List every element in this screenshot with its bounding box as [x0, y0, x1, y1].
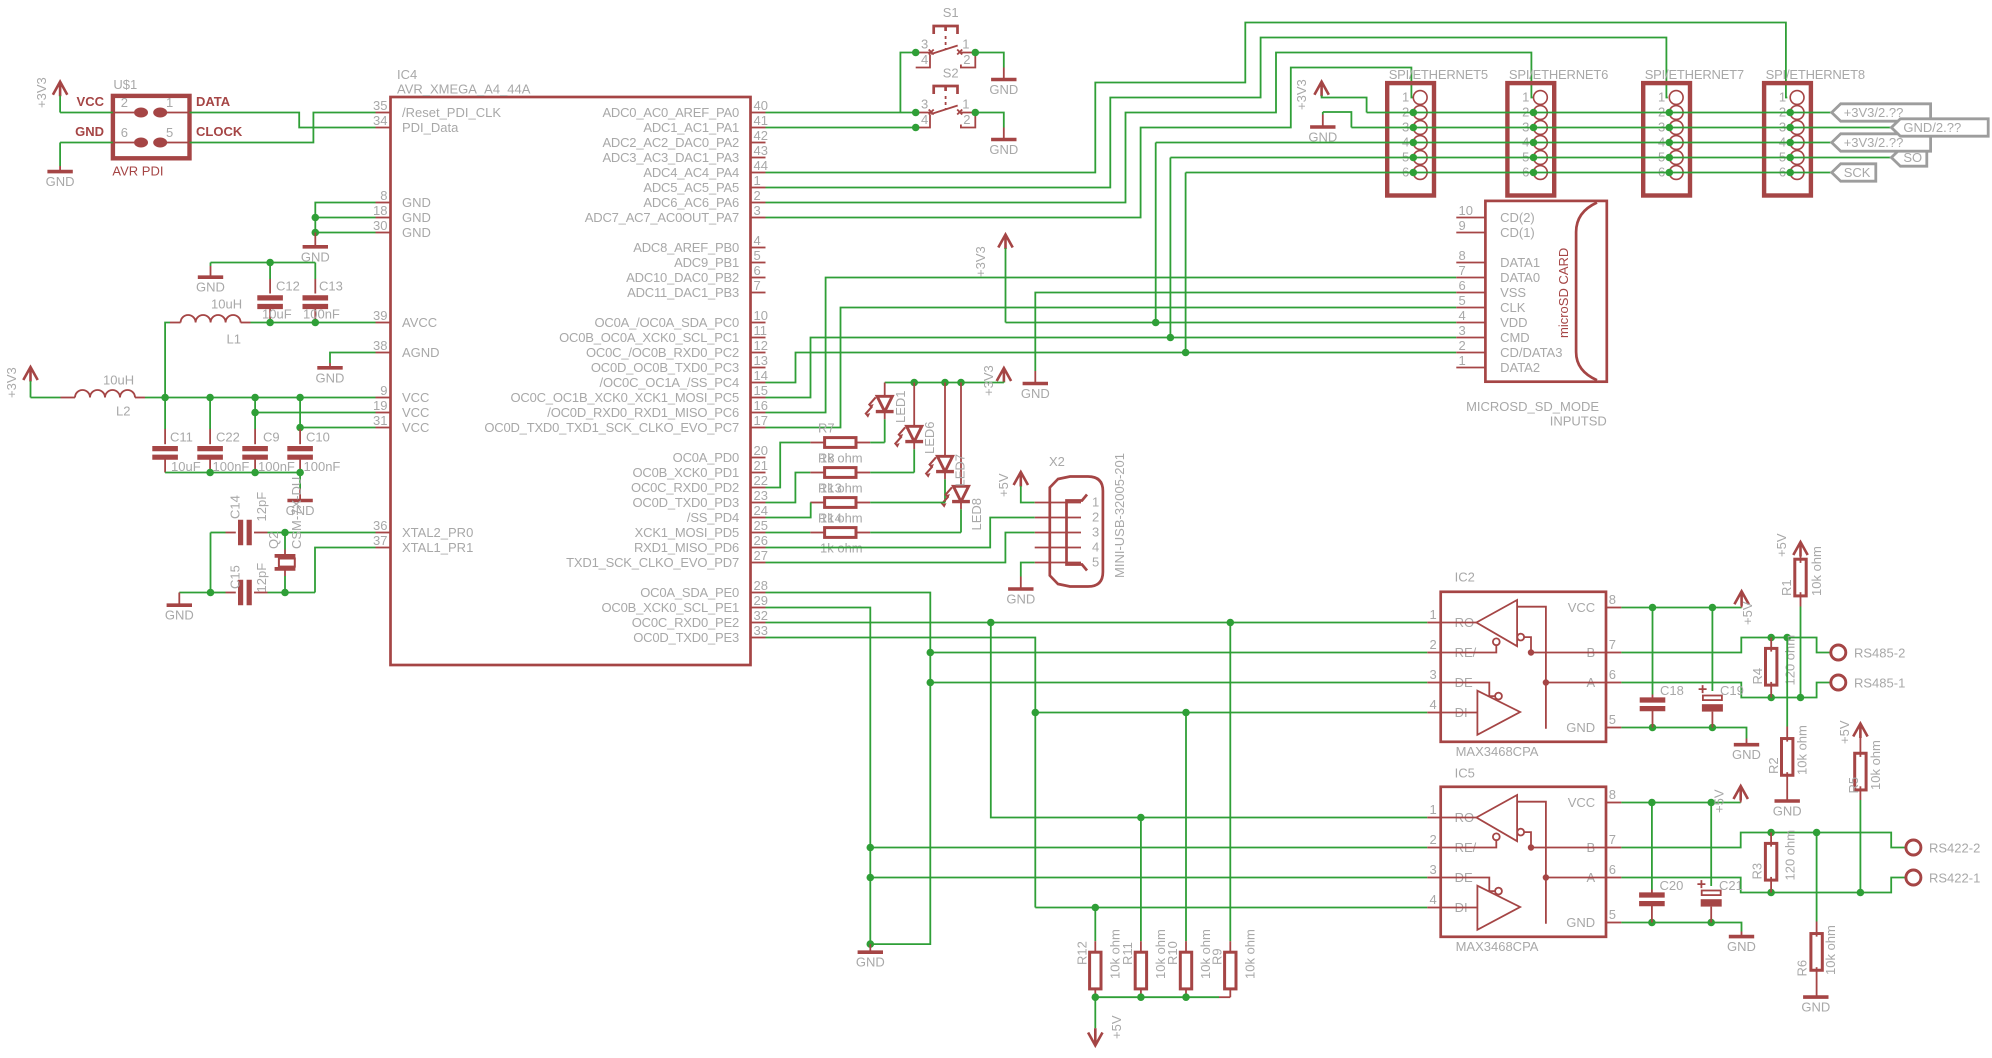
- +5V power symbol at IC5: [1734, 786, 1748, 801]
- IC4 pin 13 OC0D_OC0B_TXD0_PC3: [751, 367, 766, 369]
- LED6 anode lead: [913, 383, 915, 427]
- svg-text:Q2: Q2: [266, 532, 281, 549]
- wire LED8 cathode: [960, 509, 962, 532]
- svg-text:1: 1: [1429, 802, 1436, 817]
- R1 bottom lead: [1800, 592, 1802, 606]
- C13 bottom lead: [314, 307, 316, 323]
- junction: [251, 469, 259, 477]
- svg-text:GND: GND: [1566, 720, 1595, 735]
- junction SPI/ETHERNET8 pin 2: [1786, 109, 1794, 117]
- svg-text:28: 28: [754, 578, 768, 593]
- wire IC2 B to RS485-2: [1621, 638, 1830, 653]
- LED7 anode lead: [944, 383, 946, 457]
- junction: [312, 229, 320, 237]
- wire LED1 cathode: [884, 419, 886, 442]
- svg-text:R12: R12: [1074, 941, 1089, 965]
- svg-text:DATA0: DATA0: [1500, 270, 1540, 285]
- junction: [312, 214, 320, 222]
- wire to ground: [299, 473, 301, 489]
- IC5 pin 5 GND: [1606, 922, 1621, 924]
- LED6 cathode lead: [913, 442, 915, 450]
- svg-text:GND: GND: [1732, 747, 1761, 762]
- wire R8 to LED6: [870, 472, 914, 474]
- svg-text:4: 4: [921, 112, 928, 127]
- inductor L2: [75, 390, 135, 397]
- R7 left lead: [810, 442, 824, 444]
- svg-text:35: 35: [373, 98, 387, 113]
- capacitor C14: [241, 520, 250, 546]
- svg-text:RS485-2: RS485-2: [1854, 646, 1905, 661]
- +5V power symbol at IC2: [1734, 591, 1748, 606]
- wire XTAL2: [268, 532, 376, 534]
- wire L1 to VCC rail: [165, 323, 170, 398]
- svg-text:ADC4_AC4_PA4: ADC4_AC4_PA4: [643, 165, 739, 180]
- IC4 pin 9 VCC: [376, 397, 391, 399]
- svg-text:OC0C_OC1B_XCK0_XCK1_MOSI_PC5: OC0C_OC1B_XCK0_XCK1_MOSI_PC5: [510, 390, 739, 405]
- svg-text:ADC10_DAC0_PB2: ADC10_DAC0_PB2: [626, 270, 739, 285]
- stem: [1740, 800, 1742, 803]
- svg-text:4: 4: [1459, 308, 1466, 323]
- Q2 bottom lead: [284, 569, 286, 576]
- wire PE0 pin28 enable net: [766, 593, 931, 945]
- svg-text:120 ohm: 120 ohm: [1783, 635, 1798, 686]
- svg-text:MINI-USB-32005-201: MINI-USB-32005-201: [1112, 453, 1127, 578]
- R10 bottom lead: [1185, 989, 1187, 997]
- junction: [296, 424, 304, 432]
- svg-text:OC0A_/OC0A_SDA_PC0: OC0A_/OC0A_SDA_PC0: [594, 315, 739, 330]
- svg-text:+3V3: +3V3: [1294, 79, 1309, 110]
- R2 bottom lead: [1786, 772, 1788, 801]
- C15 left lead: [226, 592, 236, 594]
- svg-text:R4: R4: [1750, 668, 1765, 685]
- wire IC5 B to RS422-2: [1621, 833, 1906, 848]
- svg-text:9: 9: [1459, 218, 1466, 233]
- svg-text:23: 23: [754, 488, 768, 503]
- svg-text:GND: GND: [1727, 939, 1756, 954]
- SPI/ETHERNET6 pin 3 circle: [1534, 121, 1548, 135]
- svg-text:CLK: CLK: [1500, 300, 1526, 315]
- svg-text:LED6: LED6: [922, 421, 937, 454]
- svg-text:ADC1_AC1_PA1: ADC1_AC1_PA1: [643, 120, 739, 135]
- +5V power symbol at R5: [1853, 724, 1867, 739]
- svg-text:10: 10: [754, 308, 768, 323]
- capacitor C11: [152, 449, 178, 458]
- IC5 pin 8 VCC: [1606, 802, 1621, 804]
- svg-text:VCC: VCC: [1568, 795, 1595, 810]
- ground stem: [1020, 577, 1022, 590]
- svg-text:C9: C9: [263, 430, 280, 445]
- C9 bottom lead: [254, 457, 256, 472]
- ground stem: [1034, 371, 1036, 384]
- junction: [1152, 319, 1160, 327]
- svg-text:RXD1_MISO_PD6: RXD1_MISO_PD6: [634, 540, 739, 555]
- svg-text:2: 2: [1092, 510, 1099, 525]
- svg-text:2: 2: [1459, 338, 1466, 353]
- connector RS422-2: [1906, 840, 1921, 855]
- wire to ground: [59, 143, 61, 167]
- R13 left lead: [810, 502, 824, 504]
- svg-text:10uH: 10uH: [103, 373, 134, 388]
- svg-text:ADC0_AC0_AREF_PA0: ADC0_AC0_AREF_PA0: [602, 105, 739, 120]
- svg-text:1: 1: [1402, 90, 1409, 105]
- wire R6 top: [1816, 833, 1818, 922]
- U$1 pin 1 stub: [166, 112, 190, 114]
- svg-text:10k ohm: 10k ohm: [1242, 929, 1257, 979]
- wire cap bottom rail: [165, 472, 300, 474]
- junction SPI/ETHERNET7 pin 6: [1666, 169, 1674, 177]
- svg-text:ADC3_AC3_DAC1_PA3: ADC3_AC3_DAC1_PA3: [602, 150, 739, 165]
- svg-text:L1: L1: [227, 332, 241, 347]
- wire C14 to ground rail: [210, 533, 212, 593]
- wire VDD rail: [1006, 322, 1457, 324]
- R8 right lead: [856, 472, 870, 474]
- svg-text:C10: C10: [306, 430, 330, 445]
- junction: [1182, 349, 1190, 357]
- svg-text:VDD: VDD: [1500, 315, 1527, 330]
- C19 bottom lead: [1711, 712, 1713, 728]
- wire C12 top: [269, 263, 271, 280]
- svg-text:AGND: AGND: [402, 345, 440, 360]
- X2 pin 3: [1035, 532, 1081, 534]
- wire PD2 pin22 to R7: [766, 443, 811, 488]
- X2 pin 2: [1035, 517, 1081, 519]
- SPI/ETHERNET5 pin 3 circle: [1413, 121, 1427, 135]
- svg-text:CD(2): CD(2): [1500, 210, 1535, 225]
- svg-text:9: 9: [380, 383, 387, 398]
- C20 top lead: [1651, 890, 1653, 896]
- wire +3V3 to header pin4 row: [1155, 143, 1157, 323]
- svg-text:+5V: +5V: [1837, 720, 1852, 744]
- R14 left lead: [810, 532, 824, 534]
- capacitor C22: [197, 449, 223, 458]
- IC5 pin 3 DE: [1427, 877, 1441, 879]
- svg-text:L2: L2: [116, 404, 130, 419]
- IC4 pin 28 OC0A_SDA_PE0: [751, 592, 766, 594]
- U$1 pin 5 pad: [153, 138, 167, 148]
- IC4 pin 41 ADC1_AC1_PA1: [751, 127, 766, 129]
- IC4 pin 27 TXD1_SCK_CLKO_EVO_PD7: [751, 562, 766, 564]
- svg-text:10k ohm: 10k ohm: [1795, 725, 1810, 775]
- svg-text:120 ohm: 120 ohm: [1782, 830, 1797, 881]
- svg-text:1: 1: [754, 173, 761, 188]
- IC2 pin 3 DE: [1427, 682, 1441, 684]
- junction SPI/ETHERNET5 pin 2: [1410, 109, 1418, 117]
- svg-text:GND: GND: [402, 225, 431, 240]
- SPI/ETHERNET7 pin 6 circle: [1669, 166, 1683, 180]
- junction SPI/ETHERNET8 pin 3: [1786, 124, 1794, 132]
- svg-text:VCC: VCC: [77, 94, 105, 109]
- LED8 anode lead: [960, 383, 962, 487]
- C14 left lead: [226, 532, 236, 534]
- svg-text:ADC6_AC6_PA6: ADC6_AC6_PA6: [643, 195, 739, 210]
- IC2 pin 1 RO: [1427, 622, 1441, 624]
- svg-text:OC0D_TXD0_PE3: OC0D_TXD0_PE3: [633, 630, 739, 645]
- C18 bottom lead: [1652, 709, 1654, 728]
- svg-text:GND: GND: [1773, 804, 1802, 819]
- capacitor C10: [287, 449, 313, 458]
- wire C18 top: [1652, 608, 1654, 695]
- svg-text:SPI/ETHERNET8: SPI/ETHERNET8: [1766, 67, 1865, 82]
- wire R2 top: [1786, 638, 1788, 727]
- svg-text:ADC8_AREF_PB0: ADC8_AREF_PB0: [633, 240, 739, 255]
- IC4 pin 15 OC0C_OC1B_XCK0_XCK1_MOSI_PC5: [751, 397, 766, 399]
- svg-text:3: 3: [1429, 862, 1436, 877]
- U$1 pin 2 stub: [113, 112, 134, 114]
- X2 pin 1: [1035, 502, 1081, 504]
- IC4 pin 37 XTAL1_PR1: [376, 547, 391, 549]
- junction: [1137, 814, 1145, 822]
- junction: [1092, 993, 1100, 1001]
- X2 pin 5: [1035, 562, 1081, 564]
- svg-text:22: 22: [754, 473, 768, 488]
- wire +3V3 to pin2 row: [1322, 96, 1367, 113]
- LED LED6: [895, 426, 923, 447]
- ground at C12: [198, 275, 223, 279]
- svg-text:C19: C19: [1720, 683, 1744, 698]
- svg-text:SCK: SCK: [1844, 165, 1871, 180]
- wire R1 bottom: [1800, 607, 1802, 698]
- wire C20 top: [1651, 803, 1653, 890]
- junction SPI/ETHERNET8 pin 4: [1786, 139, 1794, 147]
- R9 top lead: [1229, 941, 1231, 952]
- ground at S2: [991, 138, 1016, 142]
- IC4 pin 17 OC0D_TXD0_TXD1_SCK_CLKO_EVO_PC7: [751, 427, 766, 429]
- R1 top lead: [1800, 556, 1802, 563]
- wire CLOCK to /Reset pin 35: [190, 113, 376, 143]
- resistor R2: [1782, 739, 1793, 776]
- junction: [1648, 799, 1656, 807]
- IC4 pin 30 GND: [376, 232, 391, 234]
- wire ground to pin3 row: [1323, 112, 1352, 128]
- svg-text:6: 6: [1609, 862, 1616, 877]
- R11 bottom lead: [1140, 989, 1142, 997]
- SPI/ETHERNET6 pin 6 circle: [1534, 166, 1548, 180]
- svg-text:10k ohm: 10k ohm: [1868, 740, 1883, 790]
- junction: [912, 124, 920, 132]
- svg-text:29: 29: [754, 593, 768, 608]
- svg-text:IC5: IC5: [1455, 766, 1475, 781]
- SPI/ETHERNET8 pin 5 circle: [1790, 151, 1804, 165]
- wire PE3 pin33: [766, 638, 1036, 908]
- svg-text:+3V3: +3V3: [973, 246, 988, 277]
- svg-text:1k ohm: 1k ohm: [820, 451, 863, 466]
- LED LED1: [865, 396, 893, 417]
- microSD pin 9 CD(1): [1456, 232, 1485, 234]
- junction: [251, 409, 259, 417]
- junction: [927, 679, 935, 687]
- resistor R4: [1766, 648, 1777, 685]
- svg-text:42: 42: [754, 128, 768, 143]
- microSD pin 10 CD(2): [1456, 217, 1485, 219]
- wire SCK net vertical: [1185, 173, 1187, 353]
- R8 left lead: [810, 472, 824, 474]
- svg-text:15: 15: [754, 383, 768, 398]
- wire R11 top: [1140, 818, 1142, 942]
- svg-text:GND: GND: [316, 370, 345, 385]
- R6 top lead: [1816, 922, 1818, 937]
- svg-text:AVR_XMEGA_A4_44A: AVR_XMEGA_A4_44A: [397, 82, 531, 97]
- capacitor C21 (polarized): [1702, 891, 1721, 896]
- svg-text:11: 11: [754, 323, 768, 338]
- IC4 pin 20 OC0A_PD0: [751, 457, 766, 459]
- SPI/ETHERNET5 pin 5 circle: [1413, 151, 1427, 165]
- svg-text:GND: GND: [989, 142, 1018, 157]
- capacitor C13: [303, 298, 329, 307]
- Q2 top lead: [284, 550, 286, 556]
- svg-text:1: 1: [1092, 495, 1099, 510]
- IC4 pin 43 ADC3_AC3_DAC1_PA3: [751, 157, 766, 159]
- wire PD7 pin27 to X2 pin3: [766, 533, 1035, 563]
- wire ADC1 pin41 to S2 pin4: [766, 127, 916, 129]
- wire C21 top: [1710, 803, 1712, 887]
- svg-text:1: 1: [1522, 90, 1529, 105]
- SPI/ETHERNET8 pin 4 circle: [1790, 136, 1804, 150]
- wire C13 top: [314, 263, 316, 280]
- wire GND row pin3: [1351, 127, 1891, 129]
- svg-text:44: 44: [754, 158, 768, 173]
- junction: [1167, 334, 1175, 342]
- svg-text:C12: C12: [276, 279, 300, 294]
- junction: [1649, 604, 1657, 612]
- IC5 driver: [1441, 886, 1520, 930]
- IC5 receiver: [1441, 817, 1477, 819]
- L2 right lead: [135, 397, 145, 399]
- svg-text:6: 6: [121, 125, 128, 140]
- junction: [296, 469, 304, 477]
- SPI/ETHERNET7 pin 4 circle: [1669, 136, 1683, 150]
- wire to IC5 RO: [991, 623, 1427, 818]
- junction VCC rail: [161, 394, 169, 402]
- IC2 pin 7 B: [1606, 652, 1621, 654]
- svg-text:S2: S2: [943, 66, 959, 81]
- svg-text:GND: GND: [46, 174, 75, 189]
- svg-text:VCC: VCC: [402, 390, 429, 405]
- junction: [1707, 799, 1715, 807]
- svg-text:R6: R6: [1794, 960, 1809, 977]
- net flag +3V3/2.??: [1832, 104, 1931, 121]
- svg-text:10k ohm: 10k ohm: [1823, 925, 1838, 975]
- IC4 AVR_XMEGA_A4_44A box: [391, 97, 751, 665]
- svg-text:ADC5_AC5_PA5: ADC5_AC5_PA5: [643, 180, 739, 195]
- junction: [1707, 919, 1715, 927]
- svg-text:1: 1: [962, 97, 969, 112]
- svg-text:+5V: +5V: [1109, 1015, 1124, 1039]
- svg-text:INPUTSD: INPUTSD: [1550, 414, 1607, 429]
- ground at IC2: [1734, 743, 1759, 747]
- svg-text:18: 18: [373, 203, 387, 218]
- svg-text:10: 10: [1459, 203, 1473, 218]
- junction: [1767, 889, 1775, 897]
- net flag +3V3/2.??: [1832, 134, 1931, 151]
- wire to IC5 DE: [870, 877, 1427, 879]
- svg-text:GND: GND: [75, 124, 104, 139]
- junction VCC rail: [206, 394, 214, 402]
- svg-text:1: 1: [1459, 353, 1466, 368]
- junction: [1767, 694, 1775, 702]
- microSD pin 7 DATA0: [1456, 277, 1485, 279]
- wire ADC5 pin1 to SPI/ETHERNET7 pin1: [766, 38, 1668, 188]
- C21 bottom lead: [1710, 907, 1712, 923]
- svg-text:OC0A_SDA_PE0: OC0A_SDA_PE0: [640, 585, 739, 600]
- svg-text:RS422-2: RS422-2: [1929, 841, 1980, 856]
- wire +3V3 row pin4: [1156, 142, 1832, 144]
- svg-text:3: 3: [1429, 667, 1436, 682]
- svg-text:R9: R9: [1209, 948, 1224, 965]
- svg-text:MICROSD_SD_MODE: MICROSD_SD_MODE: [1466, 399, 1599, 414]
- svg-text:16: 16: [754, 398, 768, 413]
- svg-text:2: 2: [1429, 637, 1436, 652]
- resistor R3: [1765, 843, 1776, 880]
- IC4 pin 29 OC0B_XCK0_SCL_PE1: [751, 607, 766, 609]
- IC4 pin 8 GND: [376, 202, 391, 204]
- svg-text:CLOCK: CLOCK: [196, 124, 243, 139]
- junction Q2 bottom: [281, 589, 289, 597]
- junction LED rail: [910, 379, 918, 387]
- svg-text:4: 4: [921, 52, 928, 67]
- C10 top lead: [299, 429, 301, 444]
- svg-text:10uF: 10uF: [262, 307, 292, 322]
- IC4 pin 39 AVCC: [376, 322, 391, 324]
- svg-text:7: 7: [1459, 263, 1466, 278]
- ground stem: [869, 944, 871, 952]
- R5 top lead: [1859, 737, 1861, 757]
- ground at R6: [1803, 995, 1828, 999]
- ground at R2: [1775, 799, 1800, 803]
- svg-text:10uH: 10uH: [211, 297, 242, 312]
- ground at X2: [1008, 587, 1033, 591]
- wire IC5 A to RS422-1: [1621, 878, 1906, 893]
- C11 top lead: [164, 429, 166, 444]
- junction: [972, 109, 980, 117]
- U$1 pin 1 pad: [153, 108, 167, 118]
- IC4 pin 4 ADC8_AREF_PB0: [751, 247, 766, 249]
- +5V power symbol at R1: [1793, 542, 1807, 557]
- svg-text:+3V3/2.??: +3V3/2.??: [1844, 105, 1904, 120]
- ground at enable net: [858, 950, 883, 954]
- junction LED rail: [957, 379, 965, 387]
- svg-text:5: 5: [1459, 293, 1466, 308]
- IC2 pin 6 A: [1606, 682, 1621, 684]
- stem: [1741, 605, 1743, 608]
- svg-text:SPI/ETHERNET5: SPI/ETHERNET5: [1389, 67, 1488, 82]
- svg-text:GND: GND: [402, 210, 431, 225]
- svg-text:4: 4: [1092, 540, 1099, 555]
- IC2 pin 5 GND: [1606, 727, 1621, 729]
- net flag SCK: [1832, 164, 1876, 181]
- svg-text:1k ohm: 1k ohm: [820, 511, 863, 526]
- R5 bottom lead: [1859, 786, 1861, 800]
- svg-text:1: 1: [166, 95, 173, 110]
- junction SPI/ETHERNET8 pin 6: [1786, 169, 1794, 177]
- svg-text:1: 1: [1429, 607, 1436, 622]
- junction SPI/ETHERNET6 pin 5: [1530, 154, 1538, 162]
- svg-text:1: 1: [962, 37, 969, 52]
- svg-text:7: 7: [1609, 637, 1616, 652]
- svg-text:C14: C14: [228, 495, 243, 519]
- R11 top lead: [1140, 941, 1142, 952]
- svg-text:33: 33: [754, 623, 768, 638]
- svg-text:LED7: LED7: [953, 454, 968, 487]
- wire IC5 GND: [1621, 923, 1741, 932]
- svg-text:R2: R2: [1766, 757, 1781, 774]
- ground stem: [1003, 128, 1005, 140]
- svg-text:C20: C20: [1660, 878, 1684, 893]
- svg-text:X2: X2: [1049, 454, 1065, 469]
- SPI/ETHERNET8 pin 6 circle: [1790, 166, 1804, 180]
- svg-text:S1: S1: [943, 5, 959, 20]
- junction SPI/ETHERNET6 pin 3: [1530, 124, 1538, 132]
- C12 top lead: [269, 279, 271, 294]
